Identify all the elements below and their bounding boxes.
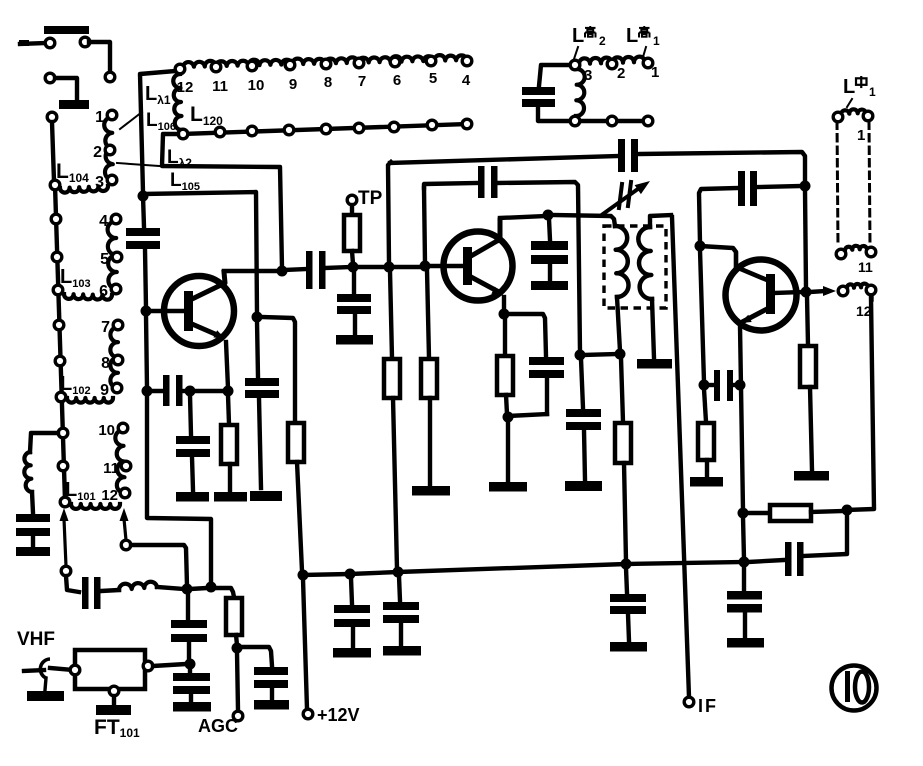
svg-text:IF: IF	[698, 696, 718, 716]
wire T1 collector line	[224, 269, 280, 273]
tuning slug ticks	[619, 184, 622, 208]
switch terminal D	[45, 73, 55, 83]
wire T2 collector line	[500, 216, 545, 218]
wire primary to R-c1	[621, 358, 623, 422]
L104 tap 3	[107, 175, 117, 185]
wire row391 mid	[182, 389, 187, 393]
L120 bus tap i	[462, 119, 472, 129]
svg-text:7: 7	[101, 319, 110, 336]
inductor L106 vertical winding	[173, 74, 182, 130]
svg-text:3: 3	[95, 174, 104, 191]
top coil tap 11	[211, 62, 221, 72]
T2 collector lead	[471, 220, 500, 256]
wire osc line right	[640, 152, 805, 183]
wire coil to node	[157, 587, 184, 589]
svg-text:1: 1	[651, 64, 659, 81]
wire osc line left	[390, 156, 618, 163]
wire C-r3 to ground	[628, 614, 629, 641]
wire neutral node to IF coil bottom	[584, 354, 617, 355]
wire contact8 to trap coil	[30, 433, 58, 452]
svg-text:AGC: AGC	[198, 716, 238, 736]
wire trap coil to cap	[32, 492, 33, 513]
column contact 10	[60, 497, 70, 507]
capacitor C-in1	[171, 620, 207, 628]
wire FT101 out to node	[153, 664, 186, 666]
terminal TP	[347, 195, 357, 205]
resistor R-fb (horizontal)	[770, 505, 811, 521]
wire bias down	[257, 321, 258, 377]
L120 bus tap g	[389, 122, 399, 132]
band switch common column wire	[55, 185, 65, 500]
wire bias to R-b1	[261, 317, 295, 422]
wire winding 12 right down	[870, 296, 873, 300]
+12V supply rail wire	[303, 562, 744, 575]
node neutral junction	[575, 350, 586, 361]
ground (C-agc)	[254, 700, 289, 710]
callout line to L-lambda-2	[117, 163, 160, 166]
wire bus lower	[146, 315, 147, 388]
column contact 8	[58, 428, 68, 438]
top coil tap 8	[321, 59, 331, 69]
wire lead-in to switch	[20, 43, 45, 44]
capacitor C-osc (series)	[618, 139, 625, 172]
inductor L104 winding	[104, 117, 113, 180]
column contact 2	[51, 214, 61, 224]
winding 12 terminal left	[838, 286, 848, 296]
L-gao bottom terminal a	[570, 116, 580, 126]
transistor T2 body	[444, 232, 513, 301]
node rail cap2	[393, 567, 404, 578]
switch terminal A	[45, 38, 55, 48]
capacitor C-b1	[245, 378, 279, 386]
svg-text:5: 5	[429, 70, 437, 87]
antenna lead break symbol	[40, 659, 50, 678]
L120 bus tap a	[178, 129, 188, 139]
node row391 b (emitter)	[223, 386, 234, 397]
inductor L101 winding	[115, 430, 125, 493]
resistor R-e2	[497, 356, 513, 395]
inductor L-mix	[119, 582, 157, 590]
wire node to ground	[506, 421, 510, 481]
svg-text:VHF: VHF	[17, 629, 55, 650]
wire C-r2 to ground	[399, 623, 403, 645]
wire L-gao left link	[539, 65, 571, 86]
wire R-c1 to rail	[624, 463, 626, 561]
wire bias node to R-t3	[704, 389, 706, 422]
svg-text:6: 6	[393, 72, 401, 89]
wire fb cap left	[699, 188, 737, 243]
svg-text:11: 11	[212, 78, 228, 95]
ground (switch)	[59, 100, 89, 109]
svg-text:4: 4	[99, 213, 108, 230]
wire row391 left	[147, 389, 163, 393]
wire TP node down	[352, 271, 356, 293]
wire C-agc to ground	[270, 688, 274, 699]
capacitor C-r2	[383, 602, 419, 610]
column contact 6	[55, 356, 65, 366]
ground (C-r3)	[610, 642, 647, 652]
wire osc line riser	[388, 162, 391, 263]
ground (IF secondary)	[637, 359, 672, 369]
node osc right junction	[800, 181, 811, 192]
wire fb node to R-fb	[746, 511, 769, 515]
node T1 base junction	[141, 306, 152, 317]
capacitor C-r1	[334, 605, 370, 613]
wire terminal E down to L104 end	[52, 122, 54, 181]
wire R-b1 to +12V rail	[297, 462, 302, 571]
svg-text:1: 1	[95, 109, 104, 126]
wiper contact left	[61, 566, 71, 576]
top tuning coil winding	[183, 55, 467, 67]
node T3 collector junction	[695, 241, 706, 252]
ground (C-r4)	[727, 638, 764, 648]
svg-text:8: 8	[324, 74, 332, 91]
inductor L-zhong-1 top winding	[841, 109, 866, 114]
wire FT101 gnd pin	[112, 696, 116, 704]
winding 11 terminal left	[836, 249, 846, 259]
node T2 bias junction	[384, 262, 395, 273]
capacitor C-in2	[173, 673, 210, 681]
node bias junction	[252, 312, 263, 323]
tuning arrow	[603, 186, 642, 214]
wire output arrow	[810, 291, 826, 292]
wire wiper-right link	[131, 545, 187, 586]
wire collector to IF primary	[551, 215, 615, 226]
trap capacitor	[16, 514, 50, 522]
capacitor C-fb	[750, 171, 757, 206]
T2 base lead	[429, 264, 463, 268]
T1 base lead	[150, 309, 184, 314]
wire emitter branch right	[508, 314, 546, 356]
wire neutral down	[581, 359, 583, 408]
node emitter row junction	[142, 386, 153, 397]
svg-text:9: 9	[100, 382, 109, 399]
wire output node down	[807, 296, 808, 345]
L103 tap 4	[111, 214, 121, 224]
svg-text:12: 12	[101, 487, 118, 504]
svg-text:10: 10	[248, 77, 265, 94]
column contact 7	[56, 392, 66, 402]
top coil tap 4	[462, 56, 472, 66]
transistor T3 body	[726, 260, 797, 331]
column contact 3	[52, 252, 62, 262]
wire fb cap right	[759, 186, 800, 187]
capacitor C-r4	[727, 591, 762, 600]
node emitter line junction	[735, 380, 746, 391]
resistor R-b1	[288, 423, 304, 462]
svg-text:1: 1	[653, 34, 660, 48]
svg-text:5: 5	[100, 251, 109, 268]
svg-text:12: 12	[856, 303, 872, 319]
ground (C-tp)	[336, 335, 373, 345]
figure number badge	[832, 666, 877, 711]
wire break to ground	[45, 678, 46, 690]
capacitor C-c1	[531, 241, 568, 250]
wire C-in2 to ground	[189, 694, 193, 701]
wire R-e1 to ground	[228, 464, 232, 490]
winding 11 terminal right	[866, 247, 876, 257]
FT101 pin out	[143, 661, 153, 671]
winding 12 terminal right	[866, 285, 876, 295]
svg-text:2: 2	[599, 34, 606, 48]
node T3 output junction	[801, 287, 812, 298]
top coil tap 6	[390, 57, 400, 67]
wire C-r4 to ground	[743, 612, 747, 637]
wire primary bottom	[617, 297, 620, 351]
wire bus upper	[143, 196, 144, 227]
L102 tap 8	[113, 355, 123, 365]
wire row391 right	[190, 389, 228, 393]
L-zhong-1 top terminal right	[863, 111, 873, 121]
L-zhong-1 top terminal left	[833, 112, 843, 122]
svg-text:2: 2	[93, 144, 102, 161]
wire from terminal B down	[89, 42, 110, 71]
wire under node-a	[190, 395, 191, 435]
wire secondary top	[650, 215, 671, 227]
L101 tap 10	[118, 423, 128, 433]
L-gao bottom terminal b	[607, 116, 617, 126]
node bus-top junction	[138, 191, 149, 202]
wire AGC terminal	[237, 652, 238, 710]
node fb corner junction	[842, 505, 853, 516]
wire TP to R-tp	[350, 205, 354, 214]
wire top-left corner to bus	[140, 71, 175, 192]
terminal AGC	[233, 711, 243, 721]
ground (C-r1)	[333, 648, 371, 658]
ground (R-b3)	[412, 486, 450, 496]
terminal IF	[684, 697, 694, 707]
inductor L-gao vertical winding	[576, 69, 585, 116]
wire emitter down	[503, 318, 507, 355]
node TP junction	[348, 262, 359, 273]
wire break to FT101 input	[50, 668, 73, 670]
ground (FT101)	[96, 705, 131, 715]
FT101 pin in	[70, 665, 80, 675]
top coil tap 9	[285, 60, 295, 70]
wire cap to ground	[31, 536, 35, 546]
wire bias node down	[390, 271, 392, 358]
wire C-b1 to ground	[259, 398, 261, 488]
resistor R-c1	[615, 423, 631, 463]
top coil tap 12	[175, 64, 185, 74]
wire cap to coil	[101, 590, 119, 591]
wire node to C-e3 stub	[508, 414, 547, 416]
capacitor C-cpl1 (coupling)	[306, 251, 313, 289]
node mixer a	[182, 584, 193, 595]
svg-text:11: 11	[858, 259, 873, 275]
wire osc node down to output node	[805, 190, 806, 288]
callout line to L-lambda-1	[120, 112, 142, 129]
L-gao tap 2	[607, 59, 617, 69]
ground (R-e1)	[214, 492, 247, 502]
resistor R-b2 (to +12V)	[384, 359, 400, 398]
inductor L-gao horizontal winding	[579, 57, 645, 64]
L120 bus tap b	[215, 127, 225, 137]
inductor winding 12	[847, 284, 868, 288]
resistor R-e1	[221, 425, 237, 464]
L-gao bottom terminal c	[643, 116, 653, 126]
wire C-in1 to node	[187, 642, 191, 661]
L104 tap 2	[105, 145, 115, 155]
ground (C-r2)	[383, 646, 421, 656]
wire AGC node right	[241, 647, 272, 666]
node mixer b	[206, 582, 217, 593]
svg-text:6: 6	[99, 283, 108, 300]
wire R-t3 to ground	[705, 460, 709, 476]
switch terminal E	[47, 112, 57, 122]
svg-text:1: 1	[869, 85, 876, 99]
svg-text:+12V: +12V	[317, 705, 360, 725]
L120 bus tap d	[284, 125, 294, 135]
wire rail cap2 down	[399, 576, 400, 601]
wire to C-cpl1	[285, 269, 306, 270]
node rail cap1	[345, 569, 356, 580]
svg-text:12: 12	[177, 79, 194, 96]
L120 bus tap e	[321, 124, 331, 134]
capacitor C-e3	[529, 357, 564, 365]
T3 output lead	[775, 292, 802, 293]
resistor R-b3 (to ground)	[421, 359, 437, 398]
top coil tap 5	[426, 56, 436, 66]
wire emitter line to rail	[743, 517, 744, 559]
svg-text:L: L	[626, 25, 638, 47]
ground (R-e3)	[794, 471, 829, 481]
resistor R-agc	[226, 598, 242, 635]
resistor R-tp	[344, 215, 360, 251]
capacitor C-gao	[522, 87, 555, 95]
L120 tap bus wire	[183, 124, 467, 134]
ground (R-t3)	[690, 477, 723, 487]
FT101 pin gnd	[109, 686, 119, 696]
L-gao tap 3	[570, 60, 580, 70]
svg-text:8: 8	[101, 355, 110, 372]
svg-text:L: L	[843, 76, 855, 98]
wire R-e3 to ground	[810, 387, 812, 470]
capacitor C-t3	[714, 370, 720, 401]
callout to L-gao-1	[643, 47, 646, 57]
wire T2 base node up	[424, 188, 425, 263]
column contact 4	[53, 285, 63, 295]
wire to T2 base node	[392, 265, 422, 269]
T2 emitter wire down	[502, 297, 506, 311]
L120 bus tap h	[427, 120, 437, 130]
wire neutralization up	[424, 183, 477, 188]
antenna changeover switch contact bar	[44, 26, 89, 34]
node T2 base junction	[420, 261, 431, 272]
wire from terminal D to ground	[55, 78, 77, 99]
L120 bus tap f	[354, 123, 364, 133]
wire C-tp to ground	[353, 314, 357, 334]
wire R-b2 to rail	[393, 398, 397, 569]
L-zhong-1 dashed core right	[869, 122, 870, 245]
wire emitter to R-e1	[228, 395, 229, 424]
capacitor C-agc	[254, 667, 288, 675]
T2 base bar	[463, 247, 472, 285]
top coil tap 7	[354, 58, 364, 68]
svg-text:L: L	[572, 25, 584, 47]
wire C-gao to bottom row	[538, 107, 644, 121]
capacitor C-bus	[126, 228, 160, 236]
L104 tap 1	[107, 110, 117, 120]
wire C-e2 to ground	[192, 457, 193, 490]
wire TP node to bias node	[356, 265, 386, 269]
L120 bus tap c	[247, 126, 257, 136]
node FT101 output junction	[185, 659, 196, 670]
column contact 5	[54, 320, 64, 330]
wire rail cap3 down	[626, 568, 627, 593]
wire R-b3 to ground	[428, 398, 432, 485]
terminal +12V	[303, 709, 313, 719]
ground (trap)	[16, 547, 50, 556]
wire T3 emitter line	[740, 326, 743, 510]
wire antenna lead	[24, 670, 44, 671]
ground (C-b1)	[250, 491, 282, 501]
IF transformer shield box (dashed)	[604, 226, 666, 308]
wire bus to bias branch (L105 link)	[143, 192, 257, 314]
T2 emitter lead	[471, 277, 499, 292]
resistor R-e3	[800, 346, 816, 387]
svg-text:9: 9	[289, 76, 297, 93]
wire bus mid	[145, 249, 146, 308]
T1 emitter lead	[192, 324, 222, 337]
filter FT101 body	[75, 650, 145, 689]
node rail cap3	[621, 559, 632, 570]
capacitor C-r3	[610, 594, 646, 602]
wire R-agc to node	[236, 635, 237, 645]
switch terminal B	[80, 37, 90, 47]
ground (C-e2)	[176, 492, 209, 502]
inductor winding 11	[845, 246, 867, 250]
wire bias node to C-t3	[708, 383, 713, 387]
capacitor C-n1	[478, 166, 485, 198]
capacitor C-mix (series)	[82, 577, 89, 609]
wire mixer node down	[186, 593, 190, 619]
node feedback junction	[738, 508, 749, 519]
svg-text:7: 7	[358, 73, 366, 90]
wire corner up to coil 12	[847, 298, 874, 510]
L101 tap 11	[121, 461, 131, 471]
wire wiper-left down	[66, 576, 79, 592]
ground (C-n2)	[565, 481, 602, 491]
L-gao tap 1	[643, 58, 653, 68]
wire C-r1 to ground	[351, 627, 355, 647]
wire bus to mixer row	[147, 395, 211, 584]
inductor L102 winding	[110, 327, 118, 388]
trap inductor	[24, 452, 32, 492]
wire T3 col node down	[700, 250, 704, 382]
L101 tap 12	[120, 488, 130, 498]
T3 emitter lead	[744, 309, 767, 321]
L103 tap 5	[112, 252, 122, 262]
wire L120 bus to signal line (L-lambda-2 link)	[162, 134, 282, 268]
svg-text:2: 2	[617, 65, 625, 82]
wire rail node down	[742, 566, 746, 590]
svg-text:TP: TP	[358, 188, 383, 209]
IF transformer secondary winding	[638, 227, 652, 299]
L103 tap 6	[111, 284, 121, 294]
svg-text:4: 4	[462, 72, 471, 89]
node lambda2 junction	[277, 266, 288, 277]
capacitor C-n2	[566, 409, 601, 417]
wire C-n1 to right	[498, 182, 580, 352]
capacitor C-rail (series)	[797, 542, 804, 576]
wire R-fb to corner	[811, 511, 843, 512]
column contact 9	[58, 461, 68, 471]
wire C-e3 down	[545, 378, 549, 414]
node R-e2 bottom	[503, 412, 514, 423]
callout to L-gao-2	[574, 47, 578, 59]
switch terminal C	[105, 72, 115, 82]
